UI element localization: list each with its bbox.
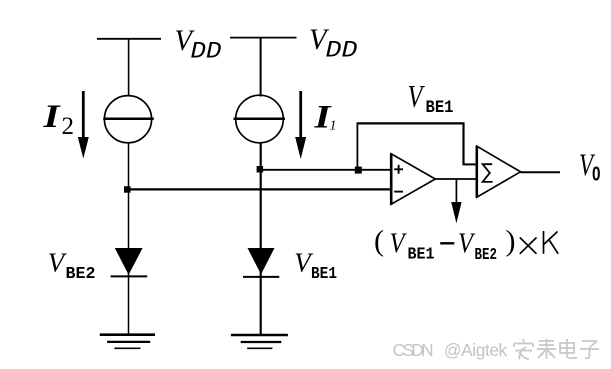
svg-text:DD: DD bbox=[191, 39, 222, 65]
svg-text:2: 2 bbox=[62, 113, 75, 140]
svg-text:1: 1 bbox=[330, 119, 337, 134]
svg-text:0: 0 bbox=[592, 164, 601, 186]
svg-text:I: I bbox=[42, 99, 61, 135]
svg-text:DD: DD bbox=[326, 38, 358, 64]
svg-text:BE2: BE2 bbox=[66, 265, 96, 284]
svg-text:@Aigtek: @Aigtek bbox=[444, 340, 508, 360]
svg-text:BE2: BE2 bbox=[475, 246, 498, 265]
svg-text:BE1: BE1 bbox=[408, 246, 435, 265]
svg-text:CSDN: CSDN bbox=[393, 340, 434, 360]
svg-text:BE1: BE1 bbox=[311, 265, 337, 284]
svg-text:): ) bbox=[506, 225, 516, 258]
svg-text:(: ( bbox=[374, 225, 384, 258]
svg-text:BE1: BE1 bbox=[426, 98, 454, 118]
